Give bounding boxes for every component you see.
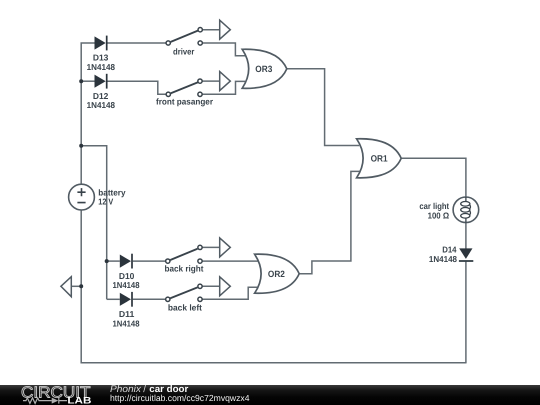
flag port symbol	[61, 277, 71, 297]
junction at second-rail branch	[79, 144, 83, 148]
svg-text:1N4148: 1N4148	[429, 254, 457, 264]
svg-text:1N4148: 1N4148	[113, 280, 140, 290]
svg-text:back right: back right	[165, 263, 204, 273]
battery V1	[69, 184, 95, 210]
svg-text:1N4148: 1N4148	[113, 318, 140, 328]
wire right rail bottom up to D14	[465, 261, 467, 363]
wire D12 cathode to front pasanger pivot	[107, 81, 167, 94]
wire back right top contact to buffer	[202, 246, 220, 248]
diode D10	[120, 254, 132, 269]
svg-text:driver: driver	[173, 46, 195, 56]
junction at flag	[79, 284, 83, 288]
svg-text:1N4148: 1N4148	[87, 62, 116, 72]
switch driver	[166, 28, 202, 46]
svg-text:12 V: 12 V	[98, 196, 113, 206]
diode D12	[95, 74, 107, 89]
wire D11 cathode to back left pivot	[133, 298, 166, 300]
footer logo diode	[52, 398, 59, 404]
svg-text:OR1: OR1	[371, 154, 388, 164]
wire back left top contact to buffer	[202, 285, 220, 287]
svg-text:100 Ω: 100 Ω	[428, 210, 450, 220]
svg-text:OR2: OR2	[268, 269, 285, 279]
or-gate OR3	[242, 49, 287, 88]
footer logo resistor squiggle	[23, 398, 52, 404]
diode D14	[459, 248, 473, 261]
junction at D10 branch	[105, 259, 109, 263]
diode D13	[95, 36, 107, 51]
buffer for driver	[220, 20, 231, 39]
svg-text:OR3: OR3	[255, 64, 272, 74]
svg-text:back left: back left	[168, 302, 202, 312]
or-gate OR1	[357, 139, 402, 178]
buffer for back left	[220, 277, 231, 296]
svg-text:http://circuitlab.com/cc9c72mv: http://circuitlab.com/cc9c72mvqwzx4	[110, 393, 250, 403]
wire back right bottom contact to OR2 top input	[202, 260, 257, 262]
wire OR3 output to OR1 top input	[287, 69, 359, 146]
wire front pasanger top contact to buffer	[202, 80, 220, 82]
wire OR1 output to lamp top	[401, 158, 466, 197]
wire D11 anode	[107, 298, 120, 300]
buffer for back right	[220, 238, 231, 257]
switch front pasanger	[166, 79, 202, 97]
wire D13 cathode to driver pivot	[107, 42, 167, 44]
wire back left bottom contact to OR2 bottom input	[202, 287, 257, 299]
car light lamp	[453, 197, 479, 223]
buffer for front pasanger	[220, 72, 231, 91]
switch back right	[166, 245, 203, 263]
wire D14 to lamp bottom	[465, 223, 467, 249]
wire OR2 output to OR1 bottom input	[299, 171, 359, 273]
or-gate OR2	[255, 254, 300, 293]
svg-text:car light: car light	[419, 201, 449, 211]
wire driver bottom contact to OR3 top input	[202, 43, 245, 56]
wire branch from left rail to second rail down to D11	[81, 146, 107, 299]
svg-text:1N4148: 1N4148	[87, 100, 116, 110]
diode D11	[120, 292, 132, 307]
wire D10 anode	[107, 260, 120, 262]
wire driver top contact to buffer	[202, 29, 219, 31]
wire D12 anode	[81, 80, 94, 82]
svg-text:LAB: LAB	[67, 396, 91, 405]
svg-text:front pasanger: front pasanger	[156, 97, 214, 107]
wire battery bottom to bottom rail	[81, 210, 466, 363]
wire front pasanger bottom contact to OR3 bottom input	[202, 81, 245, 94]
wire D10 cathode to back right pivot	[133, 260, 166, 262]
switch back left	[166, 284, 203, 301]
junction at D12 branch	[79, 79, 83, 83]
wire flag to left rail	[71, 285, 81, 287]
wire left rail from D13 row to battery top	[81, 43, 94, 184]
